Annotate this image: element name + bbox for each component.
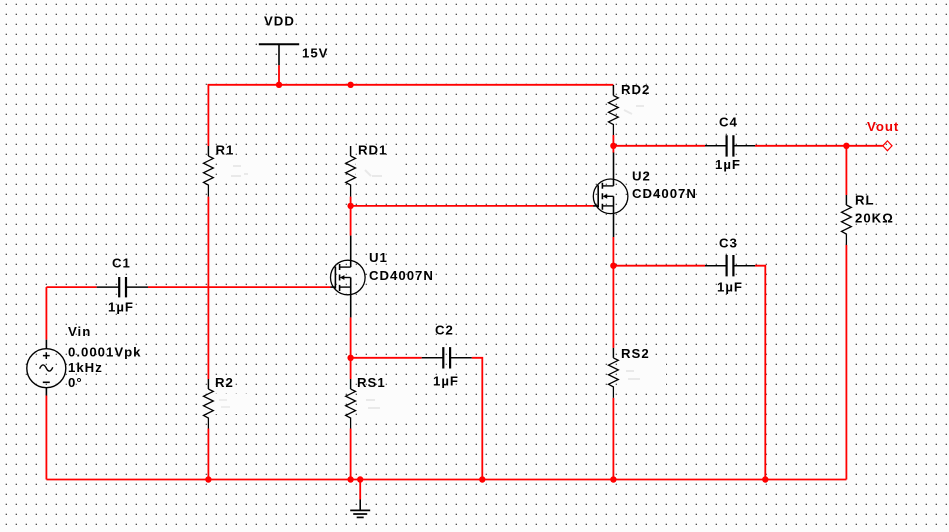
svg-text:RD1: RD1 xyxy=(358,143,387,158)
wire U1 source down xyxy=(350,317,352,357)
wire U2 drain xyxy=(612,146,614,153)
junction RS2 / bottom rail xyxy=(610,476,616,482)
junction RD1 branch / top rail xyxy=(347,82,353,88)
transistor U1 CD4007N xyxy=(331,236,366,318)
wire U1 drain xyxy=(350,206,352,236)
junction U2 source / C3 / RS2 xyxy=(610,263,616,269)
resistor R2 xyxy=(204,379,214,429)
wire RS2 top xyxy=(612,266,614,348)
wire RL bottom xyxy=(845,245,847,480)
svg-text:1µF: 1µF xyxy=(717,280,743,295)
ghost patch near R2 xyxy=(214,394,254,414)
ghost patch near RS1 xyxy=(359,391,407,415)
wire R2 bottom xyxy=(207,429,209,480)
wire RS2 bottom xyxy=(612,398,614,480)
wire RS1 top xyxy=(350,358,352,379)
junction Vout wire / RL xyxy=(843,143,849,149)
svg-text:1µF: 1µF xyxy=(108,300,134,315)
capacitor C3 xyxy=(705,255,755,276)
wire node to C4 xyxy=(613,145,705,147)
junction RD1 bottom / U1 drain / U2 gate xyxy=(347,203,353,209)
wire C3 right down xyxy=(755,266,765,480)
svg-text:0°: 0° xyxy=(68,375,83,390)
junction VDD stem / top rail xyxy=(276,82,282,88)
wire top rail xyxy=(208,85,613,146)
source Vin xyxy=(27,340,66,396)
junction RS1 / bottom rail xyxy=(347,476,353,482)
resistor RD1 xyxy=(346,146,356,197)
wire C4 to Vout xyxy=(755,145,883,147)
resistor RS1 xyxy=(346,379,356,429)
svg-text:Vout: Vout xyxy=(867,119,899,134)
svg-text:C1: C1 xyxy=(112,256,131,271)
wire C1 to U1 gate xyxy=(148,286,331,288)
capacitor C1 xyxy=(97,277,148,297)
svg-text:CD4007N: CD4007N xyxy=(369,268,434,283)
svg-text:0.0001Vpk: 0.0001Vpk xyxy=(68,345,142,360)
junction RD2 bottom / U2 drain / C4 xyxy=(610,143,616,149)
wire node to C2 xyxy=(351,357,422,359)
ghost patch near RS2 xyxy=(620,362,666,386)
svg-text:1µF: 1µF xyxy=(715,157,741,172)
output terminal Vout xyxy=(883,141,892,151)
junction C3 branch / bottom rail xyxy=(762,476,768,482)
wire C2 right down xyxy=(472,358,483,480)
wire node to U2 gate xyxy=(351,205,594,207)
wire VDD stem red xyxy=(278,65,280,85)
ghost patch near RD2 xyxy=(618,97,664,123)
power VDD symbol xyxy=(259,44,299,65)
svg-text:U1: U1 xyxy=(369,250,388,265)
svg-text:1µF: 1µF xyxy=(433,374,459,389)
transistor U2 CD4007N xyxy=(593,153,628,238)
wire R1 to R2 xyxy=(207,197,209,379)
svg-text:C3: C3 xyxy=(719,236,738,251)
junction C2 branch / bottom rail xyxy=(479,476,485,482)
svg-text:RS1: RS1 xyxy=(357,375,386,390)
svg-text:R1: R1 xyxy=(216,143,235,158)
wire RD1 bottom to node xyxy=(350,197,352,206)
wire Vin bottom xyxy=(45,396,47,480)
svg-text:RD2: RD2 xyxy=(621,82,650,97)
resistor RD2 xyxy=(609,85,619,135)
resistor RS2 xyxy=(609,348,619,398)
svg-text:Vin: Vin xyxy=(68,324,91,339)
svg-text:RS2: RS2 xyxy=(621,346,650,361)
wire node to C3 xyxy=(613,265,705,267)
svg-text:RL: RL xyxy=(855,193,875,208)
capacitor C4 xyxy=(705,135,755,156)
resistor R1 xyxy=(204,146,214,197)
wire C1 left xyxy=(46,286,96,288)
wire RL top xyxy=(845,146,847,195)
svg-text:C2: C2 xyxy=(435,323,454,338)
junction U1 source / C2 / RS1 xyxy=(347,355,353,361)
resistor RL xyxy=(842,195,852,245)
svg-text:U2: U2 xyxy=(632,169,651,184)
svg-text:C4: C4 xyxy=(719,115,738,130)
wire bottom rail xyxy=(46,479,846,481)
wire U2 source down xyxy=(612,237,614,266)
wire ground stem red xyxy=(359,480,361,500)
svg-text:1kHz: 1kHz xyxy=(68,360,103,375)
svg-text:15V: 15V xyxy=(302,46,328,61)
svg-text:VDD: VDD xyxy=(264,14,295,29)
junction R2 / bottom rail xyxy=(205,476,211,482)
wire RD2 bottom xyxy=(612,135,614,146)
svg-text:R2: R2 xyxy=(215,375,234,390)
svg-text:CD4007N: CD4007N xyxy=(632,186,697,201)
junction ground stem / bottom rail xyxy=(357,476,363,482)
ghost patch near RD1 xyxy=(356,156,402,182)
wire RS1 bottom xyxy=(350,429,352,480)
svg-text:20KΩ: 20KΩ xyxy=(855,211,894,226)
ghost patch near R1 xyxy=(221,156,269,183)
wire C1 corner to Vin xyxy=(45,287,47,340)
ground xyxy=(350,500,370,518)
capacitor C2 xyxy=(422,347,472,368)
